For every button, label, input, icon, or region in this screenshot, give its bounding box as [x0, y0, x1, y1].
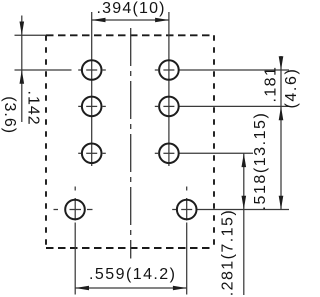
dimension line .281 [243, 153, 245, 295]
center mark hole R3 [163, 152, 174, 154]
center mark hole L1 [86, 69, 97, 71]
arrow .394 left [92, 18, 106, 23]
center mark hole B-L [70, 209, 82, 211]
extension line row1 right [179, 69, 289, 71]
svg-text:.559(14.2): .559(14.2) [89, 266, 176, 283]
hole B-R [177, 200, 197, 220]
center mark hole L2 [86, 105, 97, 107]
svg-text:.142: .142 [25, 91, 42, 126]
right pin column extension line [168, 12, 170, 166]
hole R2 [159, 97, 179, 117]
svg-text:.181: .181 [262, 66, 279, 103]
hole L2 [82, 97, 102, 117]
svg-text:(4.6): (4.6) [283, 68, 300, 109]
arrow .281 up [242, 153, 247, 167]
extension line body top-left [15, 34, 47, 36]
arrow .394 right [155, 18, 169, 23]
center mark hole R2 [163, 105, 174, 107]
dimension line .394(10) [92, 19, 169, 21]
extension line bottom-left hole down [74, 223, 76, 295]
arrow .559 right [173, 286, 187, 291]
extension line row3 right [179, 152, 253, 154]
svg-text:.518(13.15): .518(13.15) [252, 112, 269, 211]
arrow .518 down [279, 196, 284, 210]
holes (circles) [65, 60, 196, 219]
dimension leader .142 upper [21, 16, 23, 36]
dimension line .142 middle [21, 35, 23, 70]
arrowheads [20, 18, 284, 291]
hole R1 [159, 60, 179, 80]
vertical centerline (chain) [130, 28, 132, 259]
arrow .181/.518 up [279, 106, 284, 120]
svg-text:.281(7.15): .281(7.15) [219, 209, 236, 296]
extension line bottom-right hole down [186, 223, 188, 295]
arrow .142 down [20, 22, 25, 36]
left pin column extension line [91, 12, 93, 166]
hole center marks [54, 70, 193, 221]
extension line row2 right [179, 105, 289, 107]
arrow .181 down [279, 56, 284, 70]
dimension line .559 [75, 287, 187, 289]
dimension leader .142 lower [21, 70, 23, 122]
arrow .281 down [242, 196, 247, 210]
arrow .559 left [75, 286, 89, 291]
hole L3 [82, 144, 102, 164]
center mark hole L3 [86, 152, 97, 154]
hole B-L [65, 200, 85, 220]
center mark hole B-R [181, 209, 192, 211]
hole R3 [159, 144, 179, 164]
component body outline (dashed) [46, 35, 214, 248]
svg-text:(3.6): (3.6) [1, 96, 18, 134]
dimension line .181/.518 [280, 56, 282, 210]
hole L1 [82, 60, 102, 80]
center mark hole R1 [163, 69, 174, 71]
arrow .142 up [20, 70, 25, 84]
extension line row1 left [15, 69, 72, 71]
extension line row4 right [197, 209, 290, 211]
svg-text:.394(10): .394(10) [97, 0, 166, 17]
